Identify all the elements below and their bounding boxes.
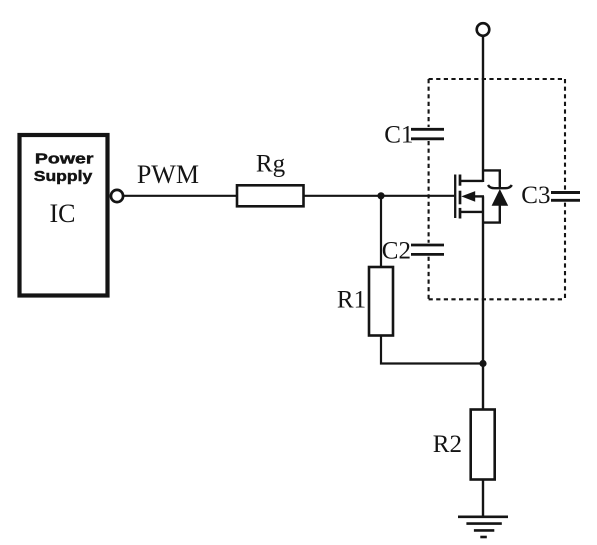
wire: top terminal down to drain xyxy=(482,36,484,182)
terminal: PWM output pin of IC xyxy=(111,190,123,202)
wire: source down through node to R2 xyxy=(482,196,484,409)
gate bar xyxy=(454,175,456,219)
svg-text:C3: C3 xyxy=(521,182,550,209)
resistor R1 xyxy=(369,267,393,336)
diode cathode bar (curved) xyxy=(488,185,512,188)
svg-text:C1: C1 xyxy=(384,122,413,149)
wire: IC pin to Rg xyxy=(124,195,237,197)
svg-text:C2: C2 xyxy=(382,238,411,265)
wire: drain to diode cathode xyxy=(483,170,500,187)
svg-text:R1: R1 xyxy=(337,287,366,314)
wire: Rg to gate of Q1 xyxy=(304,195,455,197)
svg-text:Supply: Supply xyxy=(34,168,93,185)
capacitor C2 (gate-source) xyxy=(411,245,444,254)
channel segment: drain side xyxy=(459,175,462,186)
wire: gate node down to R1 xyxy=(380,196,382,267)
svg-text:IC: IC xyxy=(50,199,76,228)
source lead xyxy=(460,211,484,213)
svg-text:Rg: Rg xyxy=(256,151,286,178)
resistor R2 xyxy=(471,410,495,480)
channel segment: body xyxy=(459,191,462,205)
resistor Rg xyxy=(237,185,304,206)
capacitor C3 (drain-source) xyxy=(551,193,580,201)
transistor Q1: N-channel MOSFET xyxy=(455,175,484,219)
wire: diode anode to source xyxy=(483,205,500,223)
channel segment: source side xyxy=(459,208,462,219)
wire: R2 to ground xyxy=(482,480,484,517)
svg-text:R2: R2 xyxy=(433,431,462,458)
node: gate junction xyxy=(377,192,384,199)
wire: R1 bottom to source node xyxy=(381,336,483,364)
Power Supply IC box U1 xyxy=(20,135,108,296)
body diode D1 of Q1 xyxy=(483,170,512,222)
drain lead xyxy=(460,180,483,182)
terminal: drain supply xyxy=(477,23,490,36)
node: source junction xyxy=(479,360,486,367)
diode triangle (anode) xyxy=(492,189,509,206)
svg-text:PWM: PWM xyxy=(137,160,199,189)
dashed box: MOSFET package boundary xyxy=(429,79,565,299)
body lead xyxy=(475,195,485,197)
capacitor C1 (gate-drain) xyxy=(411,129,444,139)
svg-text:Power: Power xyxy=(35,150,94,167)
ground xyxy=(458,517,508,537)
body arrow xyxy=(461,191,475,202)
